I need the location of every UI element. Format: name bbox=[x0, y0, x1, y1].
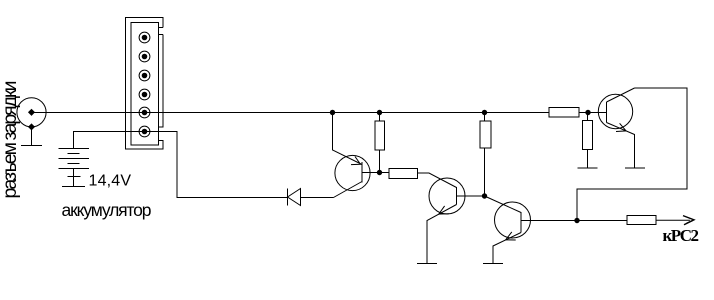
transistor VT3 emitter arrow bbox=[506, 232, 516, 240]
diode VD1 triangle bbox=[288, 189, 301, 206]
battery GB1 plate short 1 bbox=[68, 153, 80, 155]
transistor VT4 circle bbox=[598, 94, 632, 128]
wire pin6 to diode row bbox=[163, 132, 288, 198]
transistor VT3 collector diagonal bbox=[485, 196, 522, 213]
resistor R2 body bbox=[389, 169, 418, 179]
connector XP1 pin 3 bbox=[139, 70, 150, 81]
ground VT3 emitter bbox=[483, 263, 503, 265]
battery GB1 plate short 2 bbox=[68, 163, 80, 165]
svg-text:разъем зарядки: разъем зарядки bbox=[0, 81, 21, 199]
node junction dot R1 bottom bbox=[377, 170, 382, 175]
resistor R1 body bbox=[375, 121, 385, 150]
wire VT4 collector loop bbox=[577, 88, 687, 221]
battery GB1 stem bbox=[73, 169, 75, 187]
wire diode to VT1 collector bbox=[301, 197, 334, 199]
svg-text:кРС2: кРС2 bbox=[663, 226, 700, 245]
transistor VT2 circle bbox=[429, 178, 465, 214]
node junction dot A1 bbox=[330, 110, 335, 115]
transistor VT4 base bar bbox=[606, 102, 608, 123]
node junction dot output bbox=[574, 218, 579, 223]
node junction dot R1 top bbox=[377, 110, 382, 115]
connector XP1 pin 1 bbox=[139, 32, 150, 43]
jack sleeve terminal bar bbox=[21, 145, 42, 147]
wire R7 to arrow bbox=[656, 219, 690, 221]
wire R3 top lead bbox=[484, 113, 486, 122]
svg-text:14,4V: 14,4V bbox=[89, 173, 132, 190]
resistor R3 body bbox=[480, 121, 491, 148]
wire R2 to VT2 collector bbox=[418, 173, 457, 188]
wire R6 bottom lead bbox=[587, 150, 589, 169]
transistor VT1 emitter wire bbox=[333, 113, 363, 165]
wire R1 top lead bbox=[379, 113, 381, 122]
ground VT2 emitter bbox=[417, 263, 437, 265]
connector XP1 pin 5 bbox=[139, 107, 150, 118]
transistor VT2 emitter diagonal bbox=[427, 205, 457, 264]
ground VT4 emitter bbox=[625, 167, 645, 169]
wire R3 bottom lead bbox=[484, 148, 486, 196]
wire R1 bottom lead bbox=[379, 150, 381, 173]
transistor VT2 emitter arrow bbox=[439, 206, 449, 214]
node jack tip dot bbox=[28, 109, 35, 116]
transistor VT4 emitter arrow bbox=[616, 123, 626, 131]
transistor VT2 base bar bbox=[456, 187, 458, 205]
wire main rail from jack to R5 bbox=[32, 112, 550, 114]
battery GB1 bottom wide bar bbox=[62, 186, 85, 188]
connector XP1 pin 6 bbox=[139, 126, 150, 137]
node junction dot R3 top bbox=[482, 110, 487, 115]
transistor VT3 base lead bbox=[521, 220, 577, 222]
transistor VT4 emitter diagonal bbox=[607, 123, 635, 169]
transistor VT1 emitter arrow bbox=[351, 157, 361, 165]
diode VD1 cathode bar bbox=[287, 189, 289, 206]
transistor VT1 collector diagonal bbox=[334, 182, 363, 198]
transistor VT4 collector diagonal bbox=[607, 88, 635, 102]
battery GB1 plate long 1 bbox=[59, 148, 90, 150]
node jack sleeve dot bbox=[28, 123, 35, 130]
connector X1 charging jack circle bbox=[17, 98, 46, 127]
wire R5 to VT4 base bbox=[579, 112, 607, 114]
transistor VT3 base bar bbox=[520, 212, 522, 233]
transistor VT3 emitter diagonal bbox=[493, 233, 521, 264]
wire R6 top lead bbox=[587, 113, 589, 121]
transistor VT1 base bar bbox=[361, 162, 363, 183]
wire output junction to R7 bbox=[577, 220, 627, 222]
battery GB1 plate long 2 bbox=[59, 158, 90, 160]
transistor VT2 base lead bbox=[457, 195, 485, 197]
connector XP1 inner housing bbox=[131, 23, 159, 146]
transistor VT1 circle bbox=[335, 155, 370, 190]
connector XP1 outer housing bbox=[126, 18, 164, 150]
resistor R7 body bbox=[627, 216, 656, 225]
svg-text:аккумулятор: аккумулятор bbox=[62, 200, 152, 220]
battery GB1 top wire bbox=[74, 132, 164, 149]
connector XP1 pin 2 bbox=[139, 51, 150, 62]
transistor VT3 circle bbox=[495, 202, 531, 238]
resistor R5 body in series bbox=[549, 108, 579, 118]
ground R6 bbox=[578, 167, 598, 169]
transistor VT1 base lead bbox=[362, 172, 380, 174]
battery GB1 plate long 3 bbox=[59, 168, 90, 170]
node junction dot R6 top bbox=[585, 110, 590, 115]
wire jack sleeve down bbox=[31, 127, 33, 146]
connector XP1 pin 4 bbox=[139, 89, 150, 100]
node junction dot R3 bottom bbox=[482, 193, 487, 198]
arrow output to PC2 bbox=[683, 216, 694, 225]
battery GB1 bottom short bar bbox=[68, 176, 81, 178]
wire R1 junction to R2 bbox=[380, 172, 390, 174]
resistor R6 body bbox=[583, 121, 593, 150]
